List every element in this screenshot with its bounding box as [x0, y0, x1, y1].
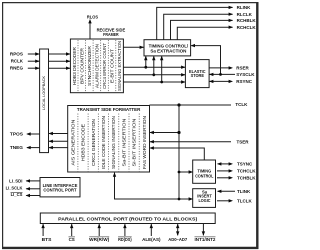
- svg-text:RNEG: RNEG: [10, 65, 24, 70]
- svg-text:RLOS: RLOS: [87, 15, 98, 20]
- svg-text:TLINK: TLINK: [237, 189, 251, 194]
- svg-text:RCLK: RCLK: [11, 59, 24, 64]
- svg-text:Sa EXTRACTION: Sa EXTRACTION: [150, 48, 186, 53]
- svg-text:RLINK: RLINK: [237, 5, 251, 10]
- svg-text:ALARM DETECTION: ALARM DETECTION: [95, 44, 100, 88]
- svg-text:TSER: TSER: [237, 139, 250, 144]
- svg-text:TSYNC: TSYNC: [237, 162, 253, 167]
- svg-text:STORE: STORE: [191, 73, 205, 78]
- svg-text:LOGIC: LOGIC: [199, 198, 211, 203]
- svg-text:LI_CS: LI_CS: [11, 192, 23, 197]
- svg-text:ALE(AS): ALE(AS): [142, 237, 161, 242]
- svg-text:RCHCLK: RCHCLK: [237, 25, 257, 30]
- svg-text:RD(DS): RD(DS): [118, 237, 132, 242]
- svg-text:RPOS: RPOS: [10, 51, 23, 56]
- svg-text:BPV COUNTER: BPV COUNTER: [79, 47, 84, 84]
- svg-text:BTS: BTS: [42, 237, 52, 242]
- svg-text:E-BIT COUNT: E-BIT COUNT: [110, 49, 115, 83]
- svg-text:TCHBLK: TCHBLK: [237, 175, 256, 180]
- svg-text:RCHBLK: RCHBLK: [237, 18, 257, 23]
- svg-text:TCHCLK: TCHCLK: [237, 169, 256, 174]
- svg-text:IDLE CODE INSERTION: IDLE CODE INSERTION: [101, 116, 106, 169]
- svg-text:CRC4 ERROR COUNT: CRC4 ERROR COUNT: [102, 43, 107, 89]
- svg-text:TLCLK: TLCLK: [237, 198, 252, 203]
- svg-text:FAS WORD INSERTION: FAS WORD INSERTION: [142, 116, 147, 169]
- svg-text:CRC4 GENERATION: CRC4 GENERATION: [91, 119, 96, 166]
- svg-text:CONTROL: CONTROL: [195, 174, 214, 179]
- svg-text:Sa-BIT INSERTION: Sa-BIT INSERTION: [121, 119, 126, 167]
- svg-text:FRAMER: FRAMER: [103, 32, 119, 37]
- svg-text:AIS GENERATION: AIS GENERATION: [70, 120, 75, 166]
- svg-text:TCLK: TCLK: [235, 102, 248, 107]
- svg-text:CONTROL PORT: CONTROL PORT: [43, 188, 77, 193]
- svg-text:HDB3 ENCODE: HDB3 ENCODE: [81, 124, 86, 161]
- svg-text:RLCLK: RLCLK: [237, 12, 253, 17]
- svg-text:LOCAL LOOPBACK: LOCAL LOOPBACK: [42, 75, 46, 110]
- svg-text:LI_SCLK: LI_SCLK: [6, 186, 23, 191]
- svg-text:INT1/INT2: INT1/INT2: [195, 237, 216, 242]
- svg-text:RSYNC: RSYNC: [236, 79, 253, 84]
- svg-text:SIGNALING INSERTION: SIGNALING INSERTION: [111, 116, 116, 169]
- svg-text:AD0–AD7: AD0–AD7: [168, 237, 187, 242]
- svg-text:CS: CS: [69, 237, 75, 242]
- svg-text:Si-BIT INSERTION: Si-BIT INSERTION: [132, 119, 137, 167]
- svg-text:SYNCHRONIZER: SYNCHRONIZER: [87, 45, 92, 86]
- svg-text:HDB3 DECODER: HDB3 DECODER: [72, 46, 77, 85]
- svg-text:RSER: RSER: [236, 66, 249, 71]
- svg-text:PARALLEL CONTROL PORT (ROUTED: PARALLEL CONTROL PORT (ROUTED TO ALL BLO…: [58, 216, 198, 221]
- svg-text:WR(R/W): WR(R/W): [89, 237, 110, 242]
- svg-text:TRANSMIT SIDE FORMATTER: TRANSMIT SIDE FORMATTER: [77, 107, 141, 112]
- svg-text:TPOS: TPOS: [10, 132, 23, 137]
- svg-text:SYSCLK: SYSCLK: [236, 72, 255, 77]
- svg-text:SIGNALING EXTRACTION: SIGNALING EXTRACTION: [117, 41, 122, 91]
- svg-text:TNEG: TNEG: [10, 145, 24, 150]
- svg-text:LI_SDI: LI_SDI: [9, 178, 22, 183]
